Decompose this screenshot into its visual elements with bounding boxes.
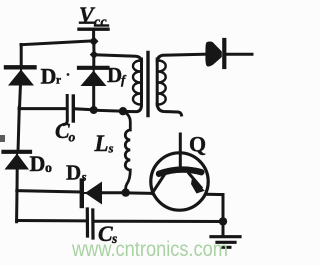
label Ds bbox=[66, 161, 87, 185]
svg-text:D: D bbox=[30, 151, 46, 176]
wire Co to node C bbox=[75, 109, 94, 110]
wire node E to Q base bbox=[126, 191, 152, 194]
label Q bbox=[189, 132, 206, 157]
wire right riser down to ground node bbox=[222, 195, 225, 235]
svg-text:s: s bbox=[108, 141, 114, 156]
wire Cs to ground node bbox=[94, 220, 223, 223]
node E (Ls bottom junction) bbox=[122, 188, 130, 196]
diode Df bbox=[79, 68, 108, 86]
wire bottom bus Cs left bbox=[17, 219, 86, 222]
wire Dr to left tee bbox=[20, 84, 21, 108]
svg-text:D: D bbox=[66, 161, 81, 185]
wire node A to node B bbox=[92, 41, 95, 55]
node F (ground junction) bbox=[219, 217, 227, 225]
wire secondary bottom to collector (with scan break) bbox=[157, 104, 181, 115]
svg-text:L: L bbox=[94, 131, 109, 156]
capacitor Cs bbox=[87, 209, 93, 238]
label Cs bbox=[98, 221, 117, 246]
wire Q emitter to right riser bbox=[208, 193, 224, 196]
diode Dr bbox=[6, 67, 35, 85]
diode Ds bbox=[82, 181, 102, 207]
svg-text:o: o bbox=[69, 130, 76, 145]
svg-text:www.cntronics.com: www.cntronics.com bbox=[71, 238, 228, 261]
transformer T1 primary winding bbox=[133, 59, 141, 105]
wire node A to left corner bbox=[21, 41, 94, 45]
scan speck left edge bbox=[0, 135, 5, 142]
wire Vcc down to node A bbox=[92, 29, 95, 41]
svg-text:D: D bbox=[107, 63, 122, 87]
label Ls bbox=[94, 131, 114, 156]
svg-text:cc: cc bbox=[94, 15, 108, 30]
wire tee to Co bbox=[19, 107, 66, 110]
ground bbox=[211, 237, 240, 248]
label Vcc bbox=[79, 2, 108, 30]
wire left bus Dr tee to Do bbox=[18, 107, 19, 152]
svg-text:s: s bbox=[81, 169, 87, 184]
wire node D to transformer primary bottom bbox=[123, 105, 142, 112]
wire Ds to node E bbox=[101, 191, 126, 194]
transistor Q bbox=[151, 134, 208, 210]
transformer T1 secondary winding bbox=[157, 59, 166, 105]
node D (Ls top junction) bbox=[119, 107, 127, 115]
wire Ds tee down to bottom corner bbox=[15, 190, 18, 222]
wire node B down to Df bbox=[92, 55, 95, 67]
svg-text:o: o bbox=[45, 161, 52, 176]
diode Do bbox=[4, 152, 31, 170]
wire node C to node D bbox=[94, 110, 123, 111]
label Do bbox=[30, 151, 53, 176]
wire Ds tee to Ds bbox=[17, 191, 80, 192]
node C (Df bottom junction) bbox=[90, 106, 98, 114]
label Dr bbox=[41, 64, 70, 89]
svg-text:Q: Q bbox=[189, 132, 206, 157]
capacitor Co bbox=[64, 96, 73, 125]
wire left bus top segment bbox=[20, 45, 23, 67]
Vcc terminal bar bbox=[79, 23, 108, 30]
svg-text:r: r bbox=[56, 75, 61, 87]
inductor Ls bbox=[123, 112, 130, 191]
label Co bbox=[55, 118, 76, 145]
wire Df to node C bbox=[92, 85, 95, 110]
wire node B to transformer primary top bbox=[94, 55, 142, 61]
wire secondary top to output diode bbox=[157, 54, 207, 61]
node A (junction below Vcc) bbox=[89, 37, 98, 47]
wire Do to Ds tee bbox=[16, 168, 19, 191]
transformer T1 core bbox=[146, 53, 149, 116]
diode D1 (output rectifier) bbox=[205, 40, 252, 67]
svg-text:D: D bbox=[41, 64, 57, 89]
label Df bbox=[107, 63, 127, 87]
node B (junction to transformer) bbox=[90, 50, 99, 59]
